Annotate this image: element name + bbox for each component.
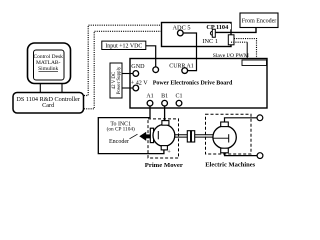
INC 1 connector [210, 29, 215, 37]
encoder arrow [139, 132, 150, 141]
wire B1 to motor top brush [164, 106, 166, 121]
svg-text:INC 1: INC 1 [202, 38, 218, 45]
dotted PWM line left [231, 41, 247, 43]
wire machine bottom terminal [225, 153, 258, 156]
svg-text:C1: C1 [175, 94, 182, 100]
wire machine top terminal [225, 118, 258, 122]
dotted bus DS1104 to CP1104 lower [84, 31, 162, 109]
dotted PWM line right [234, 39, 257, 59]
machine top terminal circle [257, 115, 263, 121]
GND terminal [131, 64, 145, 77]
svg-text:CURR A1: CURR A1 [169, 63, 193, 69]
svg-text:From Encoder: From Encoder [242, 18, 277, 24]
monitor Control Desk MATLAB-Simulink [28, 43, 71, 84]
DS 1104 R&D Controller Card box [13, 93, 84, 114]
svg-text:Encoder: Encoder [109, 139, 129, 145]
wire PS to +42V [122, 87, 133, 89]
svg-text:A1: A1 [146, 94, 153, 100]
encoder disc [150, 128, 153, 142]
electric machine M2 [213, 122, 236, 153]
Input +12 VDC box [102, 41, 146, 50]
+12VDC input terminal [153, 67, 159, 73]
svg-text:Input +12 VDC: Input +12 VDC [105, 44, 142, 50]
C1 terminal [175, 94, 182, 106]
ADC 5 terminal [177, 30, 183, 36]
svg-text:Power Electronics Drive Board: Power Electronics Drive Board [153, 80, 233, 86]
shaft coupling [187, 131, 194, 142]
Power Electronics Drive Board box [130, 59, 267, 109]
dotted bus DS1104 to CP1104 upper [84, 25, 162, 95]
svg-text:B1: B1 [161, 94, 168, 100]
wire ADC5 to CURR A1 [183, 33, 197, 71]
svg-text:+: + [167, 148, 171, 155]
svg-text:(on CP 1104): (on CP 1104) [107, 125, 135, 132]
svg-text:Power Supply: Power Supply [117, 66, 122, 94]
42 V DC Power Supply box [110, 63, 122, 98]
Encoder pointer line [130, 134, 138, 139]
wire Input +12VDC to board [146, 46, 156, 67]
B1 terminal [161, 94, 168, 106]
svg-text:CP 1104: CP 1104 [206, 24, 229, 31]
CURR A1 terminal [169, 63, 193, 73]
electric machines dashed box [205, 114, 255, 168]
wire A1 to motor bottom brush [98, 106, 164, 154]
wire PS to GND [122, 73, 133, 75]
+42V terminal [131, 80, 148, 90]
To INC1 label [107, 122, 135, 133]
A1 terminal [146, 94, 153, 106]
CP 1104 connector panel box [162, 23, 232, 47]
shaft [158, 135, 213, 137]
prime mover motor M1 [153, 121, 175, 150]
machine bottom terminal circle [257, 153, 263, 159]
svg-text:Slave I/O PWM: Slave I/O PWM [213, 53, 249, 59]
svg-text:Card: Card [42, 102, 55, 109]
CP1104 right edge PWM connector [228, 35, 234, 45]
monitor stand legs [40, 84, 62, 93]
wire PWM vertical [246, 42, 248, 59]
prime mover dashed box [145, 119, 183, 169]
wire From Encoder to INC1 [216, 28, 256, 33]
svg-text:Prime Mover: Prime Mover [145, 162, 183, 169]
svg-text:Electric Machines: Electric Machines [205, 161, 255, 168]
From Encoder box [240, 13, 278, 28]
svg-text:GND: GND [131, 64, 145, 70]
